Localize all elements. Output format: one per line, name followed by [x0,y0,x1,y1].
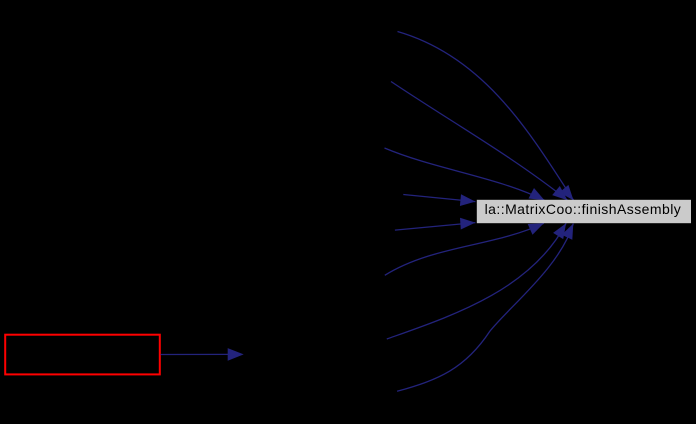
edge E4: hidden caller node to finishAssembly [403,194,475,206]
edge E8: hidden caller node to finishAssembly [397,224,573,392]
edge E1: hidden caller node to finishAssembly [398,32,574,201]
edge E7: hidden caller node to finishAssembly [387,223,566,339]
edge E0: red box to hidden middle node [161,348,244,361]
edge E5: hidden caller node to finishAssembly [395,218,476,230]
edge E6: hidden caller node to finishAssembly [385,223,544,275]
edge E3: hidden caller node to finishAssembly [385,148,545,200]
edge E2: hidden caller node to finishAssembly [391,82,568,201]
node: la::MatrixCoo::finishAssembly (gray fill) [477,200,691,223]
node: red-outlined caller box (label hidden/black) [5,335,160,375]
svg-text:la::MatrixCoo::finishAssembly: la::MatrixCoo::finishAssembly [485,201,682,217]
